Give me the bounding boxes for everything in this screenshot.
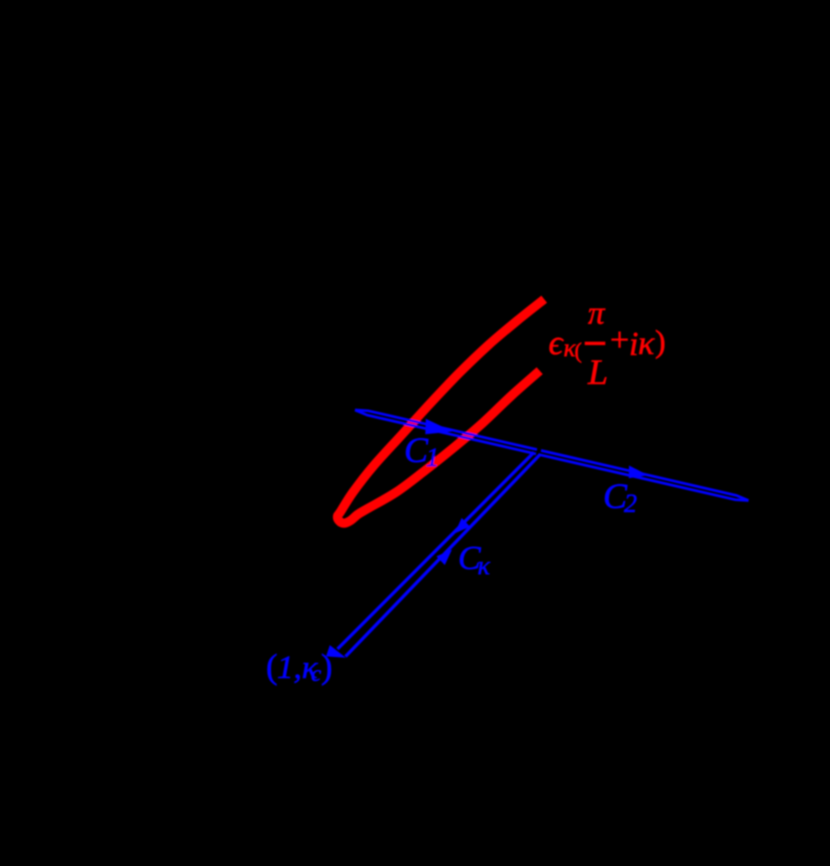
svg-text:ϵ: ϵ (549, 323, 565, 362)
svg-text:(: ( (266, 648, 278, 686)
svg-text:2: 2 (624, 489, 637, 518)
svg-text:): ) (655, 323, 666, 359)
svg-text:(: ( (575, 338, 582, 363)
svg-text:+: + (610, 322, 629, 359)
svg-text:): ) (321, 648, 333, 686)
svg-text:π: π (588, 296, 606, 332)
svg-text:c: c (311, 661, 321, 686)
svg-text:κ: κ (478, 551, 491, 580)
svg-text:1: 1 (426, 443, 439, 472)
svg-text:L: L (587, 352, 608, 392)
svg-text:κ: κ (638, 325, 655, 362)
